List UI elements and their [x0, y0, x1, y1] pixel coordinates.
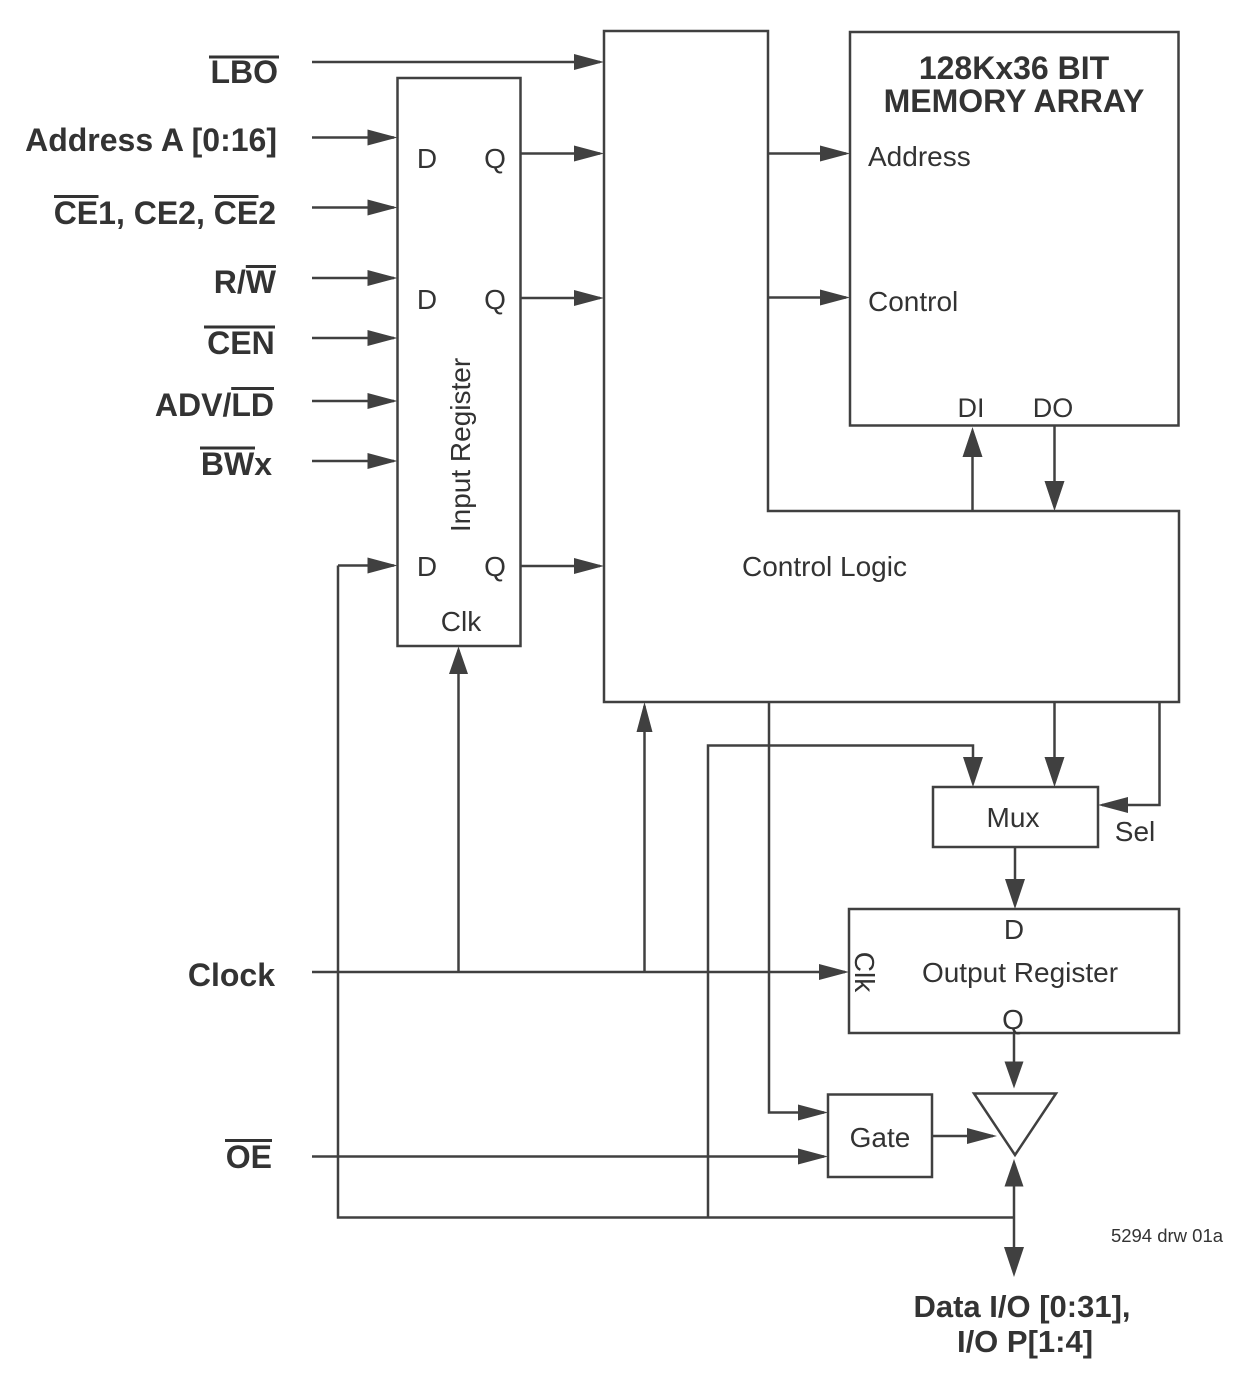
wire DO path Control Logic to Mux	[1045, 702, 1065, 787]
wire Control Logic to memory Control	[768, 290, 850, 306]
svg-text:Q: Q	[484, 143, 506, 174]
wire feedback to D3 input	[338, 558, 398, 574]
register U1 Input Register box	[398, 78, 521, 646]
wire Address A to Input Register	[312, 130, 398, 146]
wire DO from memory to Control Logic	[1045, 426, 1065, 512]
wire OE to Gate	[312, 1149, 828, 1165]
svg-text:Address: Address	[868, 141, 971, 172]
wire Mux to Output Register D	[1005, 847, 1025, 909]
svg-text:Output Register: Output Register	[922, 957, 1118, 988]
wire I/O down arrow to pads	[1004, 1218, 1024, 1278]
svg-text:D: D	[417, 143, 437, 174]
svg-text:Clock: Clock	[188, 957, 275, 993]
wire Control Logic to Gate enable	[769, 702, 828, 1121]
svg-text:CEN: CEN	[207, 325, 275, 361]
wire R/W to Input Register	[312, 270, 398, 286]
svg-text:BWx: BWx	[201, 446, 272, 482]
wire Clock branch to Control Logic	[637, 702, 653, 972]
svg-text:Input Register: Input Register	[445, 358, 476, 532]
svg-text:Sel: Sel	[1115, 816, 1155, 847]
wire Output Register Q to buffer	[1005, 1033, 1024, 1089]
svg-text:Clk: Clk	[441, 606, 482, 637]
wire LBO to Control Logic	[312, 54, 604, 70]
wire Sel from Control Logic to Mux	[1098, 702, 1160, 813]
wire Control Logic to memory Address	[768, 146, 850, 162]
wire CEN to Input Register	[312, 330, 398, 346]
svg-text:D: D	[417, 551, 437, 582]
wire clock to Input Register Clk	[449, 647, 468, 973]
node CE1, CE2, CE2 label	[54, 195, 276, 231]
node BWx label	[200, 446, 272, 482]
svg-text:Control Logic: Control Logic	[742, 551, 907, 582]
wire Q3 to Control Logic	[521, 558, 605, 574]
svg-text:R/W: R/W	[214, 264, 277, 300]
svg-text:Clk: Clk	[849, 952, 880, 993]
svg-text:Q: Q	[484, 551, 506, 582]
logic U2 Control Logic block	[604, 31, 1179, 702]
svg-text:Control: Control	[868, 286, 958, 317]
wire Clock main line to Output Register Clk	[312, 964, 849, 980]
svg-text:Mux: Mux	[987, 802, 1040, 833]
mux U4 box	[933, 787, 1098, 847]
svg-text:Gate: Gate	[850, 1122, 911, 1153]
svg-text:D: D	[417, 284, 437, 315]
svg-text:MEMORY ARRAY: MEMORY ARRAY	[884, 83, 1145, 119]
svg-text:Q: Q	[1002, 1004, 1024, 1035]
wire data bypass to Mux	[708, 746, 983, 1218]
svg-text:CE1, CE2, CE2: CE1, CE2, CE2	[54, 195, 276, 231]
svg-text:D: D	[1004, 914, 1024, 945]
wire BWx to Input Register	[312, 453, 398, 469]
node CEN label	[204, 325, 275, 361]
memory U3 128Kx36 memory array box	[850, 32, 1179, 426]
wire DI from Control Logic to memory	[963, 427, 983, 511]
gate U6 box	[828, 1095, 932, 1178]
svg-text:ADV/LD: ADV/LD	[155, 387, 274, 423]
node OE label	[225, 1139, 272, 1175]
register U5 Output Register box	[849, 909, 1179, 1033]
node R/W label	[214, 264, 277, 300]
svg-text:128Kx36 BIT: 128Kx36 BIT	[919, 50, 1110, 86]
svg-text:OE: OE	[226, 1139, 272, 1175]
wire ADV/LD to Input Register	[312, 393, 398, 409]
buffer U7 output tri-state triangle	[974, 1094, 1056, 1156]
wire Q2 to Control Logic	[521, 290, 605, 306]
svg-text:LBO: LBO	[210, 54, 278, 90]
wire I/O up into buffer	[1005, 1159, 1024, 1218]
wire Q1 to Control Logic	[521, 146, 605, 162]
svg-text:DI: DI	[958, 393, 985, 423]
node ADV/LD label	[155, 387, 274, 423]
wire Gate to buffer enable	[932, 1128, 997, 1144]
svg-text:Data I/O [0:31],: Data I/O [0:31],	[913, 1289, 1130, 1324]
svg-text:Address A [0:16]: Address A [0:16]	[25, 122, 277, 158]
svg-text:DO: DO	[1033, 393, 1074, 423]
wire CE inputs to Input Register	[312, 200, 398, 216]
svg-text:5294 drw 01a: 5294 drw 01a	[1111, 1225, 1224, 1246]
svg-text:Q: Q	[484, 284, 506, 315]
wire feedback from I/O to D3	[338, 566, 1014, 1218]
node LBO label	[209, 54, 279, 90]
svg-text:I/O P[1:4]: I/O P[1:4]	[957, 1324, 1093, 1359]
